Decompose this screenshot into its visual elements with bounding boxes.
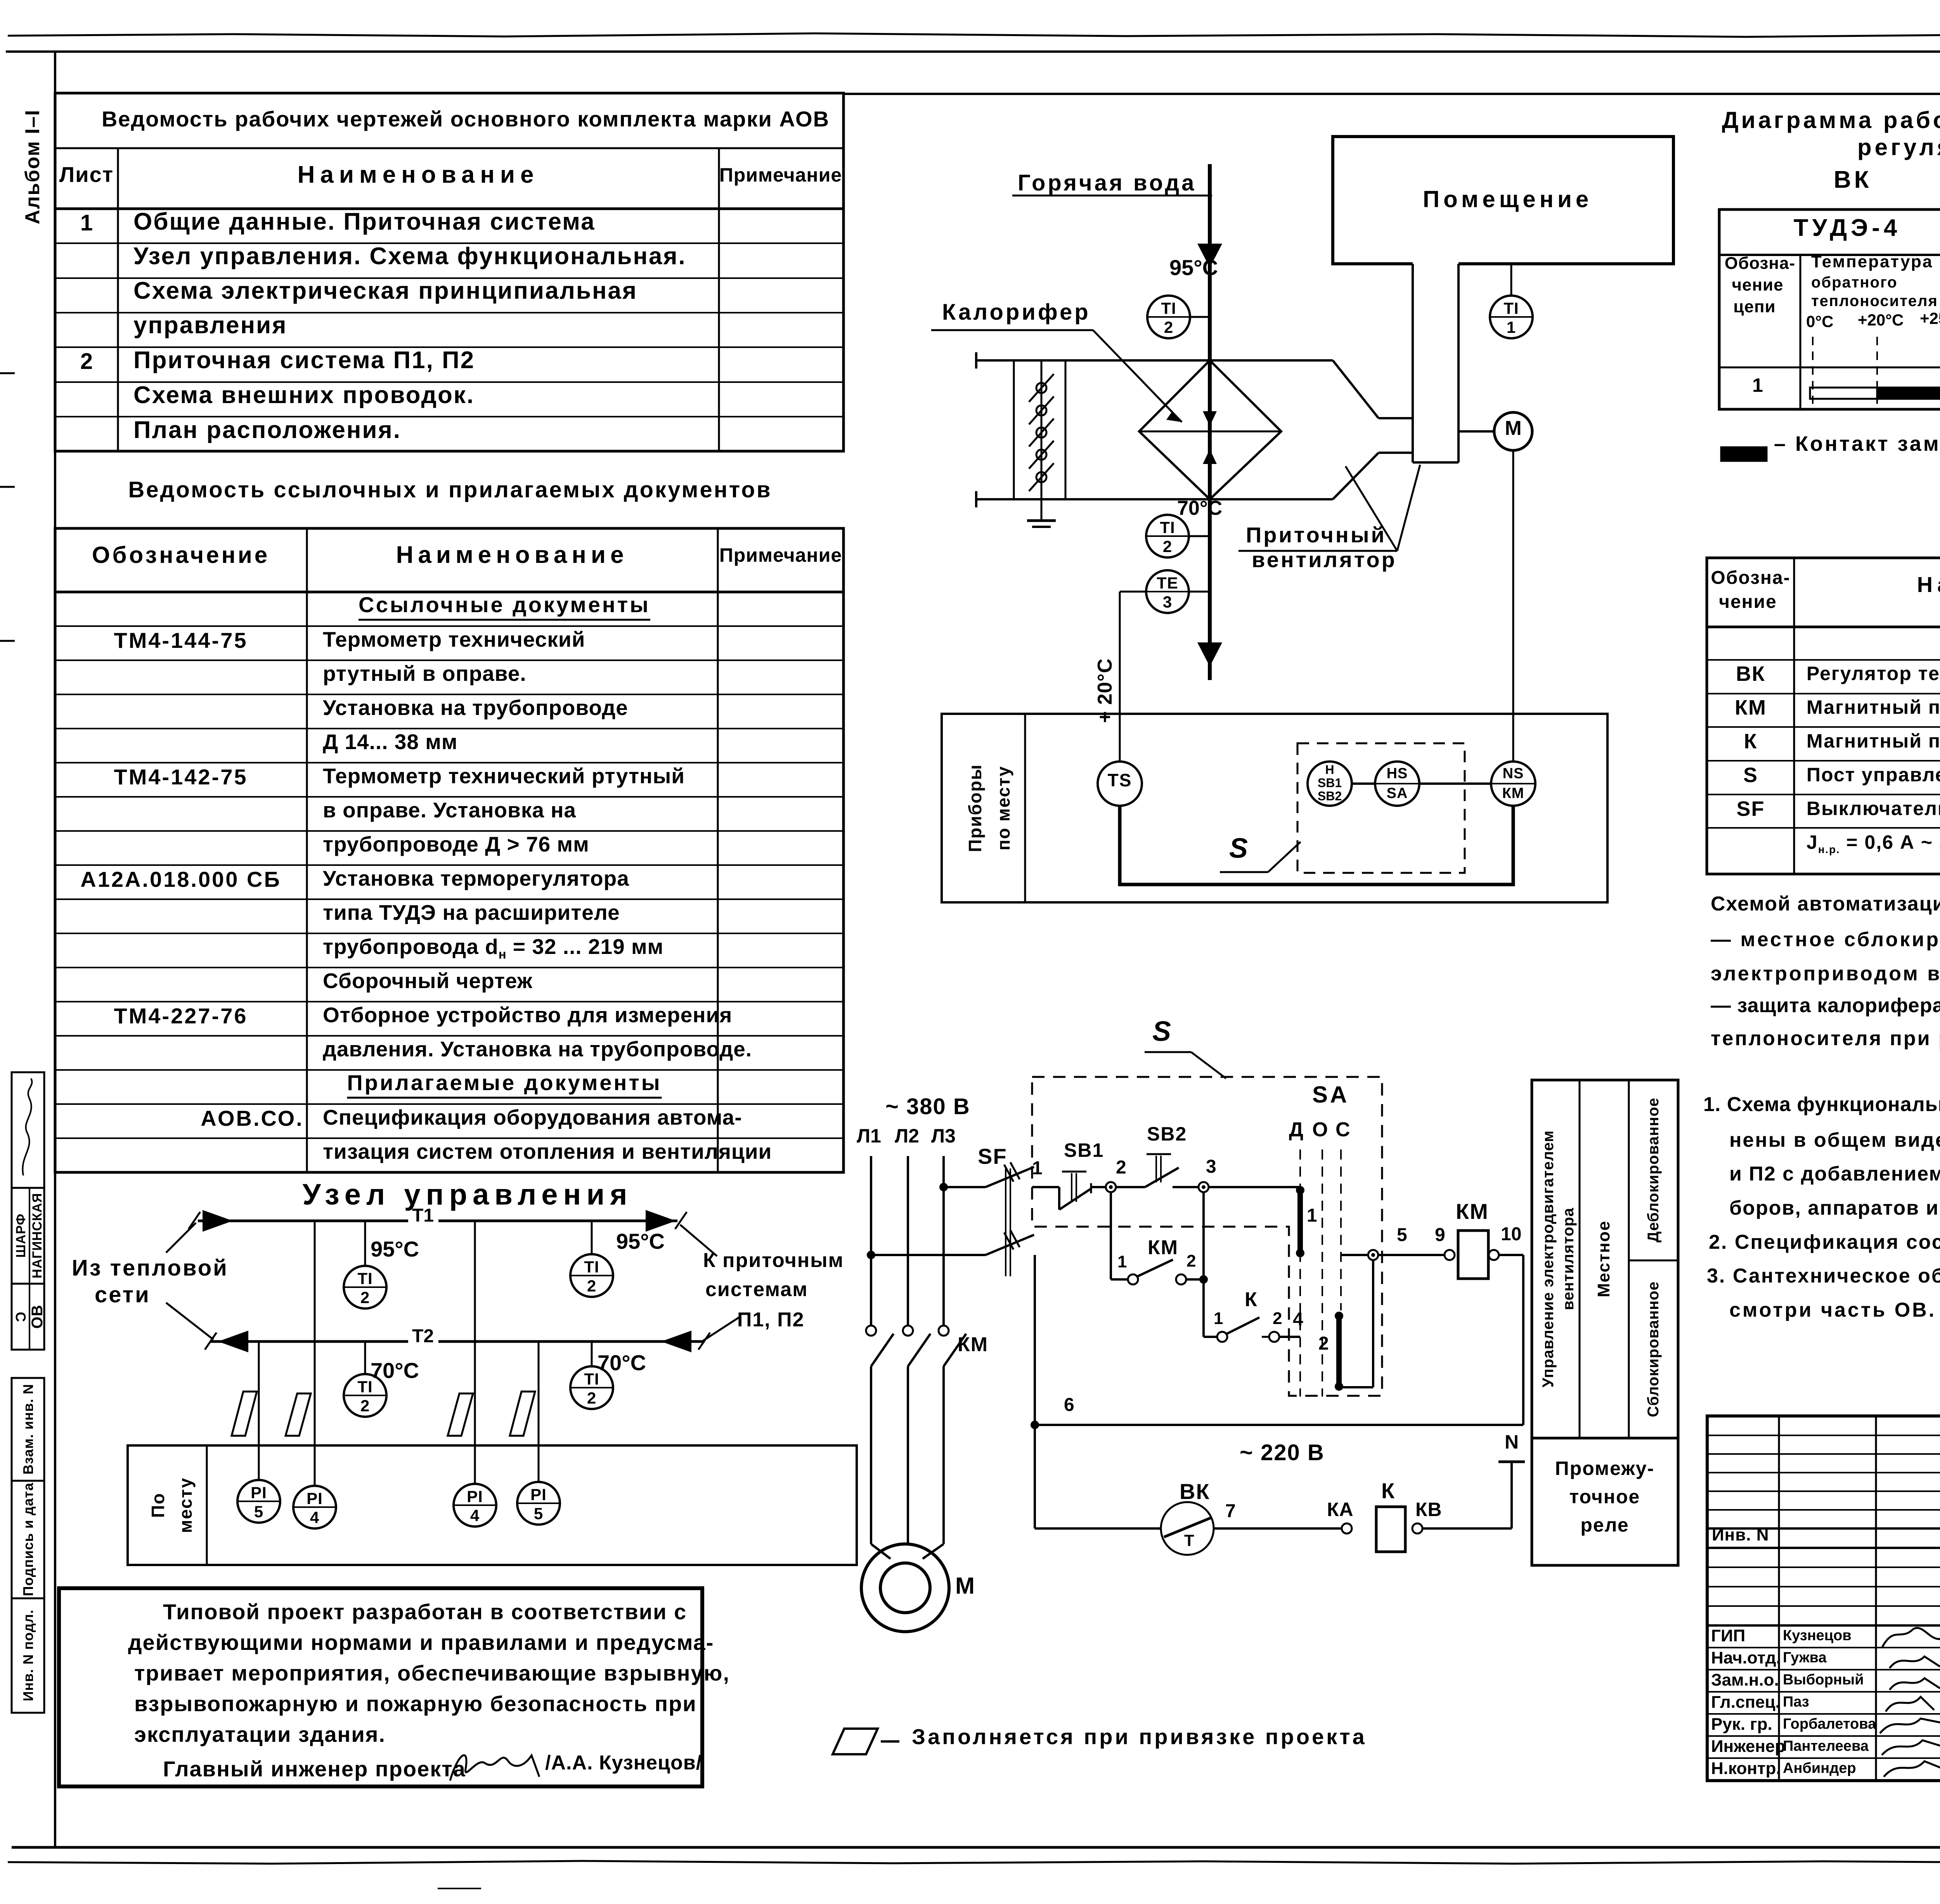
table1 row 4 — [133, 313, 287, 338]
note line 3 — [134, 1662, 730, 1684]
wire node3 down — [1202, 1192, 1205, 1337]
wire BK to KA — [1214, 1527, 1342, 1530]
instrument bubble text ТI-2 — [357, 1379, 372, 1395]
node 2 — [1106, 1182, 1116, 1192]
equipment table frame — [1707, 558, 1940, 874]
link HS-NS — [1419, 782, 1491, 785]
impulse line from T2 to PI-5 left — [258, 1341, 260, 1480]
pipe T2 right arrow — [661, 1331, 691, 1352]
label Калорифер — [942, 301, 1091, 324]
sheet outer torn top edge — [8, 33, 1940, 37]
label K contact — [1245, 1290, 1257, 1310]
wire 4 to column Д — [1279, 1336, 1300, 1338]
temperature regulator BK contact — [1161, 1502, 1214, 1555]
wire L1 to SF pole2 — [871, 1254, 986, 1256]
label SF — [978, 1146, 1007, 1167]
selector column Д dashed — [1299, 1149, 1301, 1397]
frame top border — [6, 50, 1940, 53]
node label 7 — [1225, 1502, 1236, 1521]
label ~380V — [885, 1096, 970, 1118]
contactor KM main contacts — [866, 1326, 876, 1336]
stamp box: Подпись и дата — [12, 1481, 44, 1598]
wire 6 — [1031, 1421, 1039, 1429]
title block Инв N — [1712, 1527, 1769, 1544]
stamp text С — [14, 1312, 28, 1322]
pipe flow arrow bottom — [1197, 642, 1222, 666]
label BK table — [1834, 168, 1872, 192]
table2 row 17 — [323, 1141, 772, 1162]
pipe T1 left arrow — [203, 1210, 233, 1232]
BK table title ТУДЭ-4 — [1794, 216, 1901, 240]
instrument bubble text РI-4 — [467, 1489, 483, 1505]
label 95C right — [616, 1231, 665, 1252]
fill-in parallelogram mark 3 — [448, 1393, 473, 1436]
note line 2 — [1729, 1130, 1940, 1150]
note line 1 — [163, 1601, 687, 1623]
album label — [23, 109, 43, 224]
note line 3 — [1729, 1164, 1940, 1184]
pressure gauge PI-5 left — [237, 1480, 280, 1523]
stamp text НАГИНСКАЯ — [31, 1193, 44, 1279]
note line 4 — [134, 1693, 697, 1715]
thermometer TI-2 on T1 left — [344, 1266, 386, 1309]
motor feeder convergence — [871, 1544, 890, 1559]
note line 1 — [1703, 1094, 1940, 1115]
branch to BK — [1034, 1425, 1036, 1528]
instrument bubble text РI-4 — [307, 1490, 323, 1507]
thermometer TI-1 stub — [1510, 264, 1512, 296]
title block signature row Зам.н.о. — [1711, 1672, 1779, 1689]
label Помещение — [1423, 188, 1592, 211]
label SB1 — [1064, 1141, 1104, 1160]
wire 5 from column C — [1342, 1254, 1450, 1256]
table2 row 5 — [323, 731, 458, 753]
stamp text ОВ — [29, 1305, 45, 1329]
title block frame — [1707, 1416, 1940, 1781]
riser to node5 — [1372, 1260, 1374, 1387]
selector switch HS SA — [1375, 762, 1419, 806]
legend text Заполняется при привязке проекта — [912, 1726, 1367, 1748]
rotated label Деблокированное — [1646, 1097, 1661, 1243]
note line 5 — [134, 1724, 386, 1745]
control post S dashed outline — [1032, 1077, 1382, 1396]
room box Помещение — [1333, 137, 1673, 264]
impulse line from T1 to PI-4 left — [314, 1221, 316, 1486]
filter section walls — [1013, 360, 1015, 499]
BK table frame — [1719, 209, 1940, 409]
stop button SB1 — [1058, 1187, 1060, 1210]
table2 row 12 — [323, 970, 533, 992]
binder fold marks left edge — [0, 372, 15, 374]
table2 row 8 — [323, 834, 589, 855]
label 95C — [1169, 257, 1218, 279]
hot water pipe — [1208, 164, 1212, 680]
selector column С dashed — [1340, 1149, 1342, 1310]
wire SF pole2 down to node 6 — [1034, 1255, 1036, 1425]
duct contraction to fan — [1333, 360, 1379, 418]
label KA — [1327, 1500, 1354, 1519]
label T2 — [412, 1327, 434, 1346]
node label 10 — [1501, 1225, 1521, 1244]
SA contact2 label 2 — [1318, 1335, 1329, 1353]
thermometer TI-2 stub on T1 left — [364, 1221, 366, 1266]
table2 row 4 — [323, 697, 628, 718]
title block signature row Рук. гр. — [1711, 1716, 1772, 1733]
TI-2 connector — [1190, 316, 1208, 318]
H SB1 SB2 bubble text — [1325, 763, 1334, 776]
table2 header Наименование — [396, 543, 629, 567]
heater diamond — [1139, 360, 1281, 499]
selector SA contact 2 — [1335, 1312, 1343, 1320]
table2 row 9 — [80, 869, 281, 890]
phase labels L1 L2 L3 — [857, 1126, 881, 1146]
note line 6 — [1707, 1266, 1940, 1286]
pipe T2 end ticks — [205, 1333, 217, 1350]
BK scale labels — [1806, 313, 1834, 330]
KM aux terminal 1 — [1117, 1253, 1127, 1270]
node label 9 — [1435, 1226, 1445, 1245]
phase wire L1 — [870, 1156, 872, 1325]
rotated label Местное — [1595, 1220, 1613, 1298]
BK contact bar closed part — [1877, 388, 1940, 399]
thermometer TI-2 supply — [1147, 296, 1190, 338]
pressure gauge PI-5 right — [517, 1482, 560, 1525]
SF mechanical link — [1005, 1168, 1006, 1276]
rotated label Сблокированное — [1646, 1281, 1661, 1417]
K contact terminal 1 — [1214, 1310, 1223, 1327]
table: ведомость ссылочных документов - frame — [55, 528, 844, 1172]
label M motor — [955, 1574, 975, 1598]
thermometer TI-2 on T2 right — [570, 1366, 613, 1409]
BK row circuit 1 — [1752, 376, 1763, 395]
instrument bubble text ТI-2 — [1161, 300, 1176, 317]
wire SA contact2 to riser — [1339, 1386, 1373, 1388]
instrument bubble text ТI-1 — [1503, 300, 1519, 317]
table1 header Наименование — [298, 163, 539, 187]
BK contact bar open part — [1810, 388, 1877, 399]
diagram title line1 — [1722, 109, 1940, 132]
impulse line from T2 to PI-5 right — [538, 1341, 540, 1482]
leader lines to supply systems label — [680, 1225, 717, 1256]
label Приточный вентилятор — [1246, 524, 1386, 546]
thermometer TI-2 stub on T1 right — [591, 1221, 593, 1255]
pipe flow arrow top — [1197, 244, 1222, 268]
frame bottom border — [12, 1846, 1940, 1849]
label 95C left — [371, 1238, 419, 1260]
pressure gauge PI-4 left — [293, 1486, 336, 1528]
table2 row 3 — [323, 663, 527, 684]
note line 2 — [128, 1632, 714, 1653]
scheme description line 3 — [1711, 964, 1940, 984]
leader lines from heat supply label — [166, 1223, 196, 1253]
selector column О dashed — [1322, 1149, 1323, 1397]
table1 header Лист — [59, 164, 114, 185]
fan throat — [1379, 417, 1413, 419]
table2 row 13 — [114, 1005, 248, 1027]
scheme description line 2 — [1711, 929, 1940, 950]
node L1 tap — [867, 1251, 875, 1259]
title block signature row Н.контр. — [1711, 1760, 1781, 1777]
wire SB2 to node3 — [1173, 1186, 1204, 1188]
legend closed contact bar — [1721, 447, 1767, 461]
starter NS KM — [1491, 762, 1535, 806]
wire L3 to SF pole1 — [944, 1186, 986, 1188]
instrument bubble text NS-КМ — [1503, 766, 1524, 781]
pipe T1 — [198, 1220, 408, 1222]
equipment row КМ — [1735, 697, 1767, 718]
instrument bubble text ТЕ-3 — [1157, 575, 1178, 591]
equipment row ВК — [1736, 663, 1765, 684]
scheme description line 4 — [1711, 995, 1940, 1016]
label KM aux — [1148, 1238, 1178, 1258]
wire K coil to N — [1422, 1527, 1512, 1530]
instrument bubble text РI-5 — [530, 1487, 547, 1503]
stamp box: Взам. инв. N — [12, 1378, 44, 1481]
impulse line TE-3 to TS — [1120, 591, 1147, 593]
fill-in parallelogram mark 2 — [286, 1393, 311, 1436]
pipe T2 — [211, 1340, 408, 1343]
air duct bottom line — [976, 498, 1333, 500]
note line 5 — [1709, 1232, 1940, 1252]
diagram title line2 — [1857, 136, 1940, 159]
table2 header Обозначение — [92, 544, 270, 567]
stamp text Взам. инв. N — [21, 1384, 35, 1475]
stamp text ШАРФ — [14, 1213, 28, 1258]
pipe T1 right arrow — [646, 1210, 676, 1232]
table1 header Примечание — [719, 165, 842, 185]
rotated label Приборы по месту — [966, 764, 984, 852]
S leader — [1220, 871, 1268, 873]
table2 row 10 — [323, 902, 620, 923]
breaker SF pole2 blade — [986, 1235, 1034, 1255]
label KB — [1415, 1500, 1442, 1519]
label 70C left — [371, 1360, 419, 1381]
equipment header Обозначение — [1711, 569, 1790, 587]
table1 title — [102, 108, 830, 130]
filter ground — [1041, 499, 1043, 521]
selector SA contact 1 — [1296, 1186, 1304, 1194]
equipment row Jnr — [1807, 833, 1940, 855]
title block left horizontal rules — [1707, 1435, 1940, 1436]
KM auxiliary contact — [1128, 1274, 1138, 1284]
phase wire L2 — [907, 1156, 909, 1325]
table2 row 2 — [114, 630, 248, 651]
label А.А. Кузнецов — [545, 1753, 702, 1773]
frame left border — [54, 52, 56, 1847]
label K coil — [1381, 1480, 1394, 1502]
temperature switch TS — [1098, 762, 1142, 806]
S leader electrical — [1145, 1051, 1191, 1053]
leader from Калорифер — [931, 329, 1093, 331]
motor M double circle — [861, 1544, 949, 1632]
table1 row 2 — [133, 244, 686, 268]
stamp box: approval signature — [12, 1072, 44, 1188]
air duct top line — [976, 359, 1333, 362]
table2 row 14 — [323, 1039, 752, 1060]
title block signature row Инженер — [1711, 1738, 1785, 1755]
relay coil K — [1376, 1507, 1405, 1552]
table2 row 6 — [114, 766, 248, 788]
table: ведомость рабочих чертежей - frame — [55, 93, 844, 451]
title block signature row Гл.спец. — [1711, 1694, 1780, 1711]
equipment row К — [1744, 731, 1758, 752]
TS bubble text — [1108, 771, 1132, 789]
label SB2 — [1147, 1124, 1187, 1144]
signature squiggles — [1882, 1628, 1940, 1648]
pipe T2 left arrow — [218, 1331, 248, 1352]
intermediate relay box — [1532, 1438, 1678, 1565]
wire from motor to NS — [1512, 450, 1514, 762]
label KM coil — [1456, 1201, 1489, 1222]
table2 row 16 — [201, 1108, 303, 1129]
BK dashed scale lines — [1812, 337, 1814, 404]
node label 3 — [1206, 1158, 1216, 1176]
label N — [1505, 1432, 1519, 1452]
terminal KA — [1342, 1523, 1352, 1534]
link H-HS — [1352, 782, 1375, 785]
label T1 — [412, 1206, 434, 1225]
pressure gauge PI-4 right — [454, 1484, 496, 1527]
label Промежуточное реле — [1555, 1459, 1654, 1478]
instrument bubble text ТI-2 — [584, 1371, 599, 1387]
wire SF to SB1 — [1032, 1186, 1059, 1188]
rotated label По месту — [149, 1492, 167, 1518]
instrument bubble text НS-SА — [1387, 766, 1408, 781]
motor M letter — [1505, 418, 1521, 438]
scheme description line 1 — [1711, 894, 1940, 914]
local instruments box — [128, 1445, 857, 1565]
table1 row 1 — [80, 212, 93, 234]
label Из тепловой сети — [72, 1257, 229, 1279]
label S functional — [1229, 834, 1248, 862]
KM aux terminal 2 — [1187, 1253, 1196, 1270]
impulse line from T1 to PI-4 right — [474, 1221, 476, 1484]
table2 header Примечание — [719, 545, 842, 565]
label KM main — [958, 1335, 988, 1355]
table1 row 3 — [133, 279, 637, 303]
wire node5 to KM coil — [1445, 1250, 1455, 1260]
label T in BK — [1184, 1532, 1194, 1549]
label ~220V — [1240, 1442, 1325, 1464]
thermometer TI-2 return — [1146, 515, 1189, 557]
title block signature row Нач.отд. — [1711, 1650, 1781, 1667]
filter element with louvres — [1041, 360, 1043, 499]
thermometer TI-2 stub on T2 left — [364, 1341, 366, 1374]
fan control classification box — [1532, 1080, 1678, 1438]
stamp box: ШАРФ / НАГИНСКАЯ — [12, 1188, 44, 1284]
node L3 tap — [939, 1183, 948, 1191]
instrument bubble text ТI-2 — [584, 1259, 599, 1275]
thermometer TI-2 stub on T2 right — [591, 1341, 593, 1367]
label S electrical — [1152, 1018, 1171, 1045]
BK col header Температура — [1811, 253, 1933, 270]
control post dashed outline — [1297, 743, 1465, 873]
KM coil output terminal — [1489, 1250, 1499, 1260]
note line 6 chief engineer — [163, 1758, 466, 1780]
motor symbol M — [1494, 412, 1532, 450]
label 70C — [1177, 498, 1222, 518]
KM aux branch from node2 — [1110, 1192, 1112, 1279]
instrument bubble text РI-5 — [251, 1485, 267, 1501]
BK col header Обозначение цепи — [1725, 255, 1795, 272]
equipment row S — [1743, 765, 1758, 786]
node label 2 — [1116, 1158, 1126, 1177]
fill-in legend parallelogram — [833, 1729, 878, 1754]
leader under Горячая вода — [1012, 195, 1212, 197]
fan leader lines — [1238, 550, 1397, 552]
table2 row 7 — [323, 800, 576, 821]
chief engineer signature — [450, 1755, 539, 1781]
note line 4 — [1729, 1198, 1940, 1218]
rotated label Управление электродвигателем вентилятора — [1540, 1130, 1556, 1387]
table2 title — [128, 479, 772, 501]
terminal KB — [1412, 1523, 1422, 1534]
typical project note frame — [59, 1588, 702, 1786]
title block left columns — [1778, 1416, 1780, 1781]
node label 1 — [1032, 1159, 1043, 1178]
instrument bubble text ТI-2 — [357, 1270, 372, 1287]
push buttons H SB1 SB2 — [1308, 762, 1352, 806]
table2 row 1 — [359, 594, 650, 621]
phase wire L3 — [942, 1156, 945, 1325]
top band second line — [844, 93, 1940, 95]
node label 6 — [1064, 1396, 1074, 1414]
local instruments box (field) — [942, 714, 1607, 902]
wire SB1 to node2 — [1091, 1186, 1111, 1188]
thermometer TI-2 on T2 left — [344, 1374, 386, 1417]
node 5 — [1368, 1250, 1378, 1260]
rotated label +20C — [1095, 658, 1115, 723]
wire node3 to SA contact1 — [1209, 1186, 1300, 1188]
label SA — [1312, 1083, 1349, 1106]
K contact branch — [1204, 1336, 1218, 1338]
stamp box: Инв. N подл. — [12, 1598, 44, 1713]
thermo element TE-3 — [1146, 570, 1189, 613]
labels Д О С — [1289, 1120, 1303, 1140]
pipe arrows inside heater — [1203, 411, 1217, 426]
scheme description line 5 — [1711, 1028, 1940, 1049]
wire KM coil to riser 10 — [1499, 1254, 1523, 1256]
legend text Контакт замкнут — [1774, 433, 1940, 454]
stamp text Подпись и дата — [21, 1483, 35, 1596]
equipment row SF — [1736, 798, 1765, 819]
pipe T1 end ticks — [189, 1212, 200, 1229]
neutral N terminal — [1498, 1461, 1525, 1463]
stamp text Инв. N подл. — [21, 1610, 35, 1701]
table1 row 5 — [80, 350, 93, 373]
node label 4 — [1293, 1310, 1303, 1329]
label 70C right — [598, 1352, 646, 1374]
note line 7 — [1729, 1300, 1936, 1320]
sheet torn bottom edge — [8, 1861, 1940, 1864]
table2 row 15 — [347, 1072, 662, 1099]
node 3 — [1199, 1182, 1209, 1192]
label Горячая вода — [1018, 172, 1196, 194]
contactor coil KM — [1458, 1231, 1488, 1279]
breaker SF pole1 blade — [986, 1167, 1034, 1187]
table2 row 11 — [323, 936, 663, 961]
equipment header Наименование — [1917, 574, 1940, 595]
fill-in parallelogram mark 4 — [510, 1392, 535, 1436]
wire KM aux to junction — [1186, 1278, 1204, 1281]
supply fan discharge duct — [1412, 264, 1414, 462]
label К приточным системам П1, П2 — [703, 1250, 844, 1270]
instrument bubble text ТI-2 — [1160, 519, 1175, 536]
SA contact1 label 1 — [1307, 1206, 1317, 1225]
node label 5 — [1397, 1226, 1407, 1245]
table1 row 6 — [133, 383, 475, 407]
fan motor link — [1458, 430, 1494, 433]
